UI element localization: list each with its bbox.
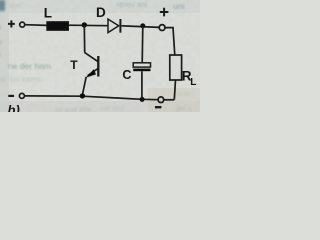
output terminal + circle: [159, 25, 165, 31]
svg-text:ist and tele: ist and tele: [55, 105, 91, 112]
plus sign input: [8, 20, 15, 27]
bleed-through text artifacts: [0, 0, 192, 114]
emitter wire down: [83, 77, 87, 95]
capacitor C bottom plate: [133, 69, 150, 72]
capacitor wire from node B: [141, 26, 144, 63]
svg-text:ante: ante: [177, 91, 191, 98]
svg-text:C: C: [122, 68, 131, 82]
svg-text:D: D: [96, 5, 106, 20]
node B junction dot: [140, 23, 145, 28]
circuit schematic: [8, 5, 197, 118]
wire inductor to diode: [69, 24, 108, 27]
emitter junction dot: [80, 93, 85, 98]
svg-text:uni: uni: [173, 1, 184, 11]
output terminal - circle: [158, 97, 164, 103]
bottom rail: [25, 96, 158, 100]
node A junction dot: [82, 22, 87, 27]
input terminal - circle: [19, 93, 24, 98]
svg-text:T: T: [70, 58, 78, 72]
resistor RL box: [170, 55, 182, 80]
minus sign input: [8, 95, 14, 97]
wire input to inductor: [25, 24, 47, 27]
inductor L: [47, 22, 69, 31]
svg-text:er los kame: er los kame: [0, 75, 42, 84]
wire diode to output: [122, 26, 160, 28]
bottom rail right segment: [164, 99, 175, 101]
diode D cathode bar: [119, 19, 121, 33]
transistor T collector diagonal: [85, 53, 99, 62]
svg-text:h: h: [0, 50, 1, 59]
paper mottling: [0, 0, 1, 1]
capacitor junction dot bottom: [140, 97, 145, 102]
svg-text:ntneu anl: ntneu anl: [116, 0, 147, 9]
diode D triangle: [108, 19, 119, 32]
svg-text:L: L: [44, 6, 52, 21]
transistor T emitter diagonal with arrow: [88, 68, 99, 75]
wire below RL: [174, 80, 175, 100]
svg-text:lu: lu: [0, 37, 2, 46]
svg-text:lilon: lilon: [9, 3, 22, 10]
capacitor wire to bottom rail: [141, 71, 143, 99]
svg-text:mit bild: mit bild: [100, 104, 124, 112]
paper background: [0, 0, 200, 112]
minus sign output: [155, 106, 161, 108]
plus sign output: [160, 8, 169, 17]
svg-text:b): b): [8, 103, 20, 113]
svg-text:ne der ham: ne der ham: [8, 61, 51, 71]
transistor T base bar: [97, 56, 99, 77]
svg-text:del s: del s: [176, 104, 192, 112]
collector wire from node A: [83, 25, 85, 53]
input terminal + circle: [20, 22, 25, 27]
svg-text:L: L: [190, 77, 196, 88]
capacitor C top plate: [133, 63, 150, 67]
wire output circle to top right corner: [165, 28, 175, 55]
